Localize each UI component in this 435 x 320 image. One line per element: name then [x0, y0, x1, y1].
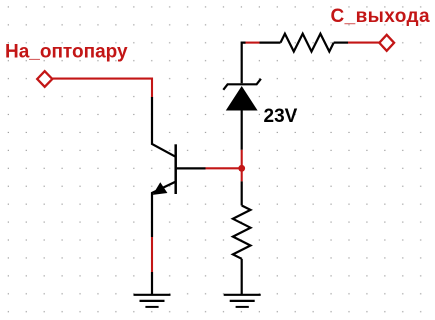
svg-text:23V: 23V [264, 106, 298, 127]
svg-text:С_выхода: С_выхода [331, 6, 431, 27]
svg-text:На_оптопару: На_оптопару [5, 42, 128, 63]
